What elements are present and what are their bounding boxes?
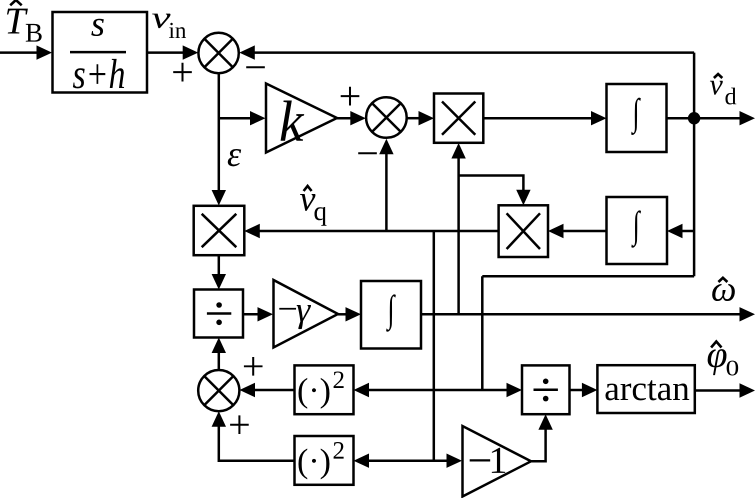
label epsilon [228, 149, 241, 166]
amplifier minus-gamma triangle [274, 280, 339, 348]
label arctan [605, 380, 689, 400]
label minus of -gamma [279, 308, 296, 310]
wire mult1 to integrator1 [483, 111, 606, 125]
fraction bar [70, 51, 126, 54]
wire vd down segment [481, 276, 484, 390]
squarer Q2 [295, 436, 354, 485]
wire sum1 down to mult3 (error signal) [212, 73, 226, 205]
label v_q [300, 194, 327, 226]
wire sum2 to mult1 [407, 111, 434, 125]
label integral sign 2 [631, 210, 641, 247]
amplifier -1 triangle [463, 426, 532, 497]
squarer Q1 [295, 365, 354, 414]
wire vq down branch [433, 231, 436, 461]
multiplier M1 [434, 94, 483, 143]
multiplier M2 [499, 205, 548, 257]
wire vd horizontal segment [482, 275, 694, 278]
label k [281, 101, 305, 141]
plus sign at sum1 input [173, 63, 192, 82]
hat over v_q [304, 186, 312, 191]
label minus of -1 [470, 459, 490, 461]
wire int2 to mult2 [548, 224, 607, 238]
wire k to sum2 [337, 111, 366, 125]
plus sign at sum2 input [341, 87, 360, 106]
block arctan [597, 365, 694, 413]
label v_in [152, 14, 186, 38]
minus sign at sum2 lower input [358, 152, 377, 154]
wire int1 to output vd [667, 111, 756, 125]
label gamma [297, 305, 311, 329]
label omega [712, 284, 735, 301]
wire omega branch into mult2 top [459, 176, 531, 206]
wire sq2 output to sum3 bottom [212, 411, 295, 461]
integrator U3 [361, 281, 421, 349]
wire arctan output phi0 [695, 383, 755, 397]
hat over v_d [714, 74, 722, 78]
wire mult3 to divider1 [212, 255, 226, 289]
wire div1 to gamma amplifier [243, 307, 273, 321]
wire gamma to integrator3 [338, 307, 361, 321]
minus sign at sum1 feedback input [246, 66, 265, 68]
hat over omega [718, 278, 727, 282]
label integral sign 1 [631, 98, 641, 135]
label v_d [710, 81, 736, 105]
label integral sign 3 [386, 294, 396, 331]
wire vq into sq2 and neg1 [354, 454, 463, 468]
plus sign at sum3 upper input [244, 357, 263, 376]
wire omega up into mult1 [451, 143, 465, 314]
wire neg1 output to div2 bottom [531, 414, 553, 461]
label s+h (denominator) [73, 59, 124, 89]
wire vd into integrator2 [667, 224, 694, 238]
wire vd vertical feedback net [693, 53, 696, 277]
label (.)^2 lower [298, 442, 343, 479]
wire omega output [421, 307, 755, 321]
integrator U2 [607, 197, 668, 264]
wire top feedback into sum1 [239, 45, 694, 59]
hat over phi [711, 342, 721, 348]
summing junction S1 [198, 33, 238, 73]
wire vd into sq1 and div2 [354, 383, 523, 397]
label s (numerator) [91, 19, 103, 36]
wire input TB arrow [0, 45, 52, 59]
wire branch to k amplifier [219, 111, 266, 125]
wire div2 to arctan [570, 383, 598, 397]
multiplier M3 [194, 206, 245, 255]
label 1 [492, 448, 505, 473]
wire sum3 up to div1 [212, 338, 226, 370]
wire vq up into sum2 [379, 139, 393, 231]
label (.)^2 upper [298, 371, 343, 408]
node vd junction dot [688, 112, 700, 124]
plus sign at sum3 lower input [230, 415, 249, 434]
wire block to sum1 [147, 45, 198, 59]
wire vq line mult2 to mult3 [244, 224, 498, 238]
integrator U1 [607, 84, 667, 152]
divider D2 [522, 365, 570, 414]
label T_B (input torque) [7, 9, 42, 42]
hat over T [10, 0, 22, 5]
summing junction S2 [366, 97, 407, 138]
wire sq1 output to sum3 [240, 383, 295, 397]
amplifier k triangle [266, 84, 337, 153]
label phi_0 [708, 349, 739, 375]
summing junction S3 [198, 370, 239, 411]
block H1 transfer function s/(s+h) [53, 12, 148, 93]
divider D1 [194, 290, 243, 338]
